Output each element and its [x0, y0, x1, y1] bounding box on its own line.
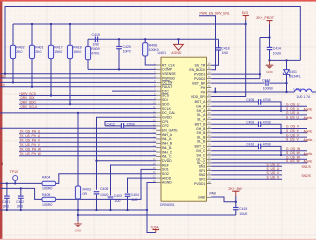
net label S_US_U source low wire — [211, 115, 307, 119]
power port 7U3A — [150, 226, 159, 233]
wire SP2 shunt sense net — [211, 175, 282, 179]
inductor L401 1U0 1.7A — [294, 88, 317, 99]
svg-text:10U0: 10U0 — [100, 193, 108, 197]
U401 right pin 45 GL_A — [197, 113, 212, 117]
svg-text:ZK+_PROT: ZK+_PROT — [256, 16, 274, 20]
svg-text:47N0: 47N0 — [263, 120, 271, 124]
svg-text:BST_BK: BST_BK — [192, 81, 206, 85]
net label SN1 fragment right edge — [302, 165, 311, 169]
U401 left pin 18 INL_A — [153, 137, 172, 141]
net label TK_OS_PH_U and wire INx — [19, 130, 156, 134]
wire SN2 shunt sense net — [211, 171, 282, 175]
test point TP10 — [10, 170, 18, 184]
U401 right pin 48 BST_A — [195, 100, 212, 104]
net label S_US_V source low wire — [211, 138, 307, 142]
U401 left pin 27 AVDD — [153, 176, 172, 180]
svg-text:AGND: AGND — [171, 51, 182, 55]
wire GND pad to ZK- power — [211, 197, 237, 203]
wire DVDD net — [95, 160, 156, 162]
net label G_OS_U gate high wire — [211, 103, 307, 107]
net label TK_OS_PH_V and wire INx — [19, 139, 156, 143]
svg-text:47N0: 47N0 — [263, 143, 271, 147]
capacitor C408 47N0 bootstrap phase U — [211, 98, 282, 112]
resistor R409 47K0 — [85, 39, 99, 69]
U401 left pin 13 GVDD — [153, 115, 173, 119]
net label DRV_SDO and wire — [19, 101, 156, 105]
svg-text:C413: C413 — [262, 79, 270, 83]
svg-text:2K0: 2K0 — [35, 50, 41, 54]
net label S_US_W source low wire — [211, 159, 307, 163]
U401 right pin 55 EN_BUCK — [189, 68, 211, 72]
svg-text:S_US_V: S_US_V — [286, 138, 299, 142]
svg-text:C405: C405 — [100, 187, 108, 191]
svg-text:C402: C402 — [16, 200, 24, 204]
U401 left pin 7 DTC — [154, 89, 169, 93]
svg-text:1N0: 1N0 — [93, 42, 99, 46]
capacitor C412 22N0 charge pump — [105, 122, 156, 128]
svg-text:7U3A: 7U3A — [150, 226, 159, 230]
wire ZK+ to PVDD pins — [259, 38, 270, 79]
U401 left pin 3 VSENSE — [154, 72, 176, 76]
svg-text:C409: C409 — [246, 120, 254, 124]
svg-text:R403: R403 — [83, 187, 91, 191]
svg-text:1U0: 1U0 — [114, 199, 120, 203]
svg-text:C408: C408 — [246, 98, 254, 102]
sheet border top edge — [0, 0, 316, 2]
svg-text:VDD_SPI: VDD_SPI — [191, 95, 206, 99]
svg-text:C414: C414 — [273, 47, 281, 51]
wire SO2 net with resistor R404 — [0, 174, 156, 184]
U401 right pin 35 GL_C — [197, 158, 212, 162]
svg-text:R402: R402 — [16, 46, 24, 50]
svg-text:100R0: 100R0 — [42, 187, 52, 191]
svg-text:D401: D401 — [289, 70, 297, 74]
svg-text:SN2/S: SN2/S — [302, 174, 311, 178]
op-amp U401 DRV8301 gate driver IC body — [161, 57, 207, 201]
U401 left pin 20 INL_B — [153, 146, 172, 150]
net label S_OS_V source high wire — [211, 129, 307, 133]
svg-text:22N0: 22N0 — [127, 122, 135, 126]
wire OCTW net from sheet edge — [0, 81, 156, 83]
net label G_US_U gate low wire — [211, 111, 307, 115]
capacitor C410 47N0 bootstrap phase W — [211, 143, 282, 157]
wire FAULT net from sheet edge — [0, 86, 156, 88]
U401 right pin 54 PVDD1 — [194, 72, 211, 76]
svg-text:Applic: Applic — [304, 152, 313, 156]
U401 right pin 42 GH_B — [196, 127, 211, 131]
net label G_OS_W gate high wire — [211, 147, 307, 151]
U401 right pin 50 PH — [201, 90, 212, 94]
net label DRV_SDI and wire — [19, 96, 156, 100]
net label S_OS_U source high wire — [211, 107, 307, 111]
U401 left pin 2 COMP — [154, 68, 173, 72]
ground GND symbol below R403 — [74, 221, 82, 232]
U401 right pin 56 SS_TR — [194, 63, 211, 67]
svg-text:1N0: 1N0 — [222, 51, 228, 55]
svg-text:DRV8301: DRV8301 — [160, 203, 175, 207]
svg-text:C410: C410 — [246, 143, 254, 147]
U401 right pin 37 GH_C — [196, 149, 211, 153]
net label G_US_W gate low wire — [211, 156, 307, 160]
U401 right pin 46 SH_A — [197, 109, 212, 113]
U401 left pin 17 INH_A — [153, 133, 173, 137]
svg-text:Applic: Applic — [304, 116, 313, 120]
net label PWR_EN_DRV_EN1 and wire to EN_BUCK — [199, 11, 230, 69]
U401 left pin 23 DVDD — [153, 159, 172, 163]
svg-text:PVDD1: PVDD1 — [194, 72, 205, 76]
U401 right pin 52 BST_BK — [192, 81, 211, 85]
svg-text:Applic: Applic — [304, 160, 313, 164]
svg-text:PH: PH — [201, 90, 206, 94]
U401 left pin 9 SDI — [154, 98, 168, 102]
net label Applic note fragment V high — [304, 130, 313, 134]
svg-text:R417: R417 — [54, 46, 62, 50]
port LT off-sheet label — [1, 83, 6, 87]
svg-text:15K0: 15K0 — [73, 50, 81, 54]
wire SO1 net with resistor R405 — [0, 169, 156, 199]
svg-text:S_US_V: S_US_V — [267, 175, 280, 179]
svg-text:BST_A: BST_A — [195, 100, 206, 104]
svg-text:R409: R409 — [91, 47, 99, 51]
svg-text:100K0: 100K0 — [149, 48, 159, 52]
U401 right pin 47 GH_A — [196, 105, 211, 109]
svg-text:3N3: 3N3 — [3, 205, 9, 209]
net label TK_US_PH_V and wire INx — [19, 143, 156, 147]
svg-text:ZK+_5W: ZK+_5W — [228, 187, 242, 191]
resistor R401 pull-up 2K0 — [29, 23, 43, 88]
svg-text:Applic: Applic — [304, 107, 313, 111]
svg-text:C418: C418 — [221, 46, 229, 50]
wire PVDD1 pin — [211, 73, 260, 75]
svg-text:AGND: AGND — [162, 181, 172, 185]
net label Applic note fragment U low — [304, 116, 313, 120]
resistor R405 100R0 — [42, 193, 56, 207]
svg-text:100N0: 100N0 — [263, 87, 273, 91]
net label G_US_V gate low wire — [211, 133, 307, 137]
wire analog ground return to C415 — [78, 214, 236, 216]
capacitor C418 1N0 SS_TR — [211, 39, 229, 65]
net label DRV_SCLK and wire — [19, 105, 156, 109]
net label Applic note fragment W high — [304, 152, 313, 156]
wire GVDD net — [97, 117, 157, 190]
net label G_OS_V gate high wire — [211, 125, 307, 129]
net label TK_OS_PH_W and wire INx — [19, 148, 156, 152]
U401 right pin 32 SP1 — [199, 169, 211, 173]
U401 left pin 24 REF — [153, 163, 169, 167]
U401 right pin 41 SH_B — [197, 131, 212, 135]
U401 right pin 53 PVDD2 — [194, 77, 211, 81]
U401 left pin 14 CP1 — [153, 120, 169, 124]
U401 designator label — [158, 51, 167, 55]
svg-text:Applic: Applic — [304, 130, 313, 134]
svg-text:TP10: TP10 — [10, 170, 18, 174]
U401 left pin 15 CP2 — [153, 124, 169, 128]
port fragment left edge near DVDD — [1, 162, 3, 166]
wire AVDD net — [128, 178, 157, 193]
net label Applic note fragment W low — [304, 160, 313, 164]
wire VDD_SPI from 5V bus — [211, 24, 246, 97]
svg-text:C401: C401 — [2, 200, 10, 204]
diode D401 SS34FL catch diode — [283, 59, 301, 84]
svg-text:SS_TR: SS_TR — [194, 63, 205, 67]
wire buck ground line — [270, 59, 301, 61]
capacitor C415 10U0 — [233, 202, 247, 216]
U401 left pin 11 SCLK — [153, 107, 172, 111]
U401 left pin 12 DC_CAL — [153, 111, 176, 115]
wire PVDD2 pin — [211, 78, 260, 80]
svg-text:S_US_U: S_US_U — [286, 115, 299, 119]
resistor R408 100K0 RT_CLK — [143, 38, 159, 65]
svg-text:C403: C403 — [114, 194, 122, 198]
wire SP1 shunt sense net — [211, 167, 282, 171]
U401 right pin 39 SL_B — [197, 140, 211, 144]
wire top rail from left corner to top right corner — [5, 7, 300, 75]
svg-text:10U0: 10U0 — [273, 51, 281, 55]
capacitor C401 3N3 — [2, 182, 10, 211]
U401 right pin 40 GL_B — [197, 135, 212, 139]
wire VSENSE net from sheet edge — [0, 73, 156, 75]
capacitor C414 10U0 bulk — [267, 38, 281, 62]
U401 left pin 6 FAULT — [154, 85, 172, 89]
svg-text:PWR_EN_DRV_EN1: PWR_EN_DRV_EN1 — [200, 11, 230, 15]
U401 right pin 31 SN2 — [199, 173, 211, 177]
svg-text:S_US_W: S_US_W — [286, 159, 300, 163]
svg-text:5V3: 5V3 — [242, 11, 248, 15]
svg-text:SL_B: SL_B — [197, 140, 206, 144]
svg-text:EN_BUCK: EN_BUCK — [189, 68, 206, 72]
U401 left pin 21 INH_C — [153, 150, 173, 154]
sheet border left edge — [0, 0, 2, 240]
net label S_OS_W source high wire — [211, 151, 307, 155]
svg-text:PAD: PAD — [210, 191, 217, 195]
U401 right pin 44 SL_A — [197, 117, 211, 121]
wire PH net to inductor — [211, 88, 294, 94]
sheet border bottom edge segment — [0, 239, 316, 240]
U401 GND thermal pad pin — [198, 191, 217, 199]
svg-text:C419: C419 — [92, 33, 100, 37]
U401 left pin 10 SDO — [153, 102, 170, 106]
U401 left pin 5 OCTW — [154, 80, 173, 84]
svg-text:R405: R405 — [42, 193, 50, 197]
svg-text:100R0: 100R0 — [42, 203, 52, 207]
U401 left pin 16 EN_GATE — [153, 129, 178, 133]
U401 right pin 49 VDD_SPI — [191, 95, 211, 99]
capacitor C420 10P0 — [116, 38, 131, 70]
wire AGND pin down to port 7U3A — [147, 182, 156, 232]
svg-text:SL_A: SL_A — [197, 117, 206, 121]
U401 left pin 1 RT_CLK — [154, 63, 176, 67]
svg-text:PVDD1: PVDD1 — [194, 182, 205, 186]
wire DTC net — [112, 90, 156, 92]
U401 left pin 8 SCS — [154, 93, 170, 97]
U401 part value label DRV8301 — [160, 203, 175, 207]
wire SN1 shunt sense net — [211, 163, 282, 167]
svg-text:R401: R401 — [35, 46, 43, 50]
U401 right pin 51 PH — [201, 86, 212, 90]
svg-text:47K0: 47K0 — [91, 52, 99, 56]
port G0 off-sheet label — [1, 74, 6, 78]
U401 right pin 29 PVDD1 — [194, 182, 211, 186]
wire CP1 net — [105, 122, 156, 126]
capacitor C404 1U0 AVDD — [125, 193, 139, 211]
wire DC_CAL net from sheet edge — [0, 112, 156, 114]
wire pull-up supply bus y24 — [13, 23, 246, 25]
svg-text:PH: PH — [201, 86, 206, 90]
resistor R402 pull-up 2K0 — [10, 24, 24, 84]
power port 5V3 — [242, 11, 249, 25]
svg-text:C420: C420 — [123, 45, 131, 49]
net label DRV_SCS and wire — [19, 92, 156, 96]
wire ground rail bottom left — [0, 209, 148, 211]
svg-text:47N0: 47N0 — [263, 98, 271, 102]
U401 right pin 43 BST_B — [195, 122, 212, 126]
svg-text:3N3: 3N3 — [17, 205, 23, 209]
svg-text:SS34FL: SS34FL — [289, 75, 301, 79]
ground AGND symbol with U401 designator area — [171, 38, 183, 55]
resistor R404 100R0 — [42, 176, 56, 191]
svg-text:C415: C415 — [239, 207, 247, 211]
wire BST_BK net with capacitor C413 100N0 — [211, 79, 286, 93]
capacitor C419 1N0 series cap — [92, 33, 100, 46]
svg-text:SN1/S: SN1/S — [302, 165, 311, 169]
svg-text:R408: R408 — [149, 44, 157, 48]
svg-text:C404: C404 — [131, 193, 139, 197]
capacitor C409 47N0 bootstrap phase V — [211, 120, 282, 134]
U401 left pin 22 INL_C — [153, 155, 172, 159]
U401 right pin 34 SL_C — [197, 161, 211, 165]
resistor R403 0R DC_CAL to ground — [75, 112, 91, 222]
wire COMP pin net — [88, 68, 156, 70]
U401 left pin 28 AGND — [153, 181, 173, 185]
capacitor C405 10U0 GVDD — [94, 187, 109, 211]
U401 left pin 26 SO2 — [153, 172, 169, 176]
U401 right pin 36 SH_C — [196, 153, 211, 157]
U401 right pin 38 BST_C — [194, 145, 211, 149]
net label TK_US_PH_W and wire INx — [19, 152, 156, 156]
svg-text:2K0: 2K0 — [16, 50, 22, 54]
power port ZK+_PROT — [256, 16, 274, 39]
U401 right pin 30 SP2 — [199, 177, 211, 181]
node AGND net wire y39.3 — [88, 38, 219, 40]
svg-text:15K0: 15K0 — [54, 50, 62, 54]
U401 left pin 4 PWRGD — [154, 76, 175, 80]
U401 right pin 33 SN1 — [199, 165, 211, 169]
svg-text:R418: R418 — [73, 46, 81, 50]
svg-text:0R: 0R — [83, 192, 88, 196]
wire EN_GATE net from sheet edge — [0, 127, 156, 129]
power port ZK-_PW — [228, 187, 242, 202]
capacitor C403 1U0 REF — [108, 194, 122, 211]
svg-text:GND: GND — [198, 196, 206, 200]
svg-text:Applic: Applic — [304, 138, 313, 142]
svg-text:10P0: 10P0 — [123, 50, 131, 54]
capacitor C402 3N3 — [16, 187, 24, 211]
svg-text:GND: GND — [266, 70, 272, 74]
svg-text:U401: U401 — [158, 51, 167, 55]
resistor R417 pull-up 15K0 — [48, 23, 62, 97]
U401 left pin 25 SO1 — [153, 168, 169, 172]
net label TK_US_PH_U and wire INx — [19, 134, 156, 138]
svg-text:1U0: 1U0 — [131, 198, 137, 202]
svg-text:PVDD2: PVDD2 — [194, 77, 205, 81]
wire PWRGD net from sheet edge — [0, 77, 156, 79]
net label SN2 fragment right edge — [302, 174, 311, 178]
net label Applic note fragment U high — [304, 107, 313, 111]
svg-text:R404: R404 — [42, 176, 50, 180]
svg-text:8: 8 — [1, 162, 3, 166]
resistor R418 pull-up 15K0 — [67, 23, 81, 105]
U401 left pin 19 INH_B — [153, 142, 173, 146]
wire REF net — [111, 165, 157, 196]
net label Applic note fragment V low — [304, 138, 313, 142]
svg-text:1U0 1.7A: 1U0 1.7A — [296, 95, 311, 99]
svg-text:GND: GND — [75, 229, 81, 233]
ground GND symbol buck — [266, 60, 274, 73]
svg-text:10U0: 10U0 — [239, 212, 247, 216]
